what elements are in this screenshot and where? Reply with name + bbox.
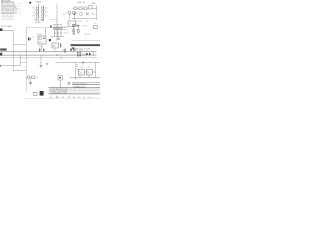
svg-text:TYP: TYP [86,21,89,23]
svg-text:Y1: Y1 [86,50,88,52]
wire [42,5,44,22]
wire [0,65,20,67]
diode D1 [35,19,38,21]
junction [54,32,55,33]
wire [26,26,67,28]
svg-text:C50: C50 [36,77,39,79]
resistor R31 [73,29,75,32]
wire [69,14,74,21]
wire [34,13,46,15]
wire [13,44,26,46]
resistor R13 [36,15,38,17]
wire tap [40,55,42,66]
wire [44,28,46,36]
wire [53,24,63,26]
resistor R42 [57,27,59,30]
svg-text:L101: L101 [78,2,82,4]
wire [84,71,95,73]
fuse F1 [79,7,82,10]
ground [40,66,43,68]
bus label [0,48,6,50]
arrow [86,53,88,55]
riser [93,52,95,55]
transistor Q1 [72,25,75,27]
wire [40,44,42,50]
resistor R50 [32,76,35,79]
svg-text:TR4 0S: TR4 0S [36,2,43,4]
connector CN5 [33,92,37,95]
wire [54,48,56,52]
wire [50,36,64,38]
relay K2 contacts [79,72,83,74]
wire [34,9,46,11]
wire net H [56,61,101,63]
junction [60,57,61,58]
node D1 [39,49,41,52]
connector stub P2 [0,53,2,56]
IC U2 [38,36,46,44]
resistor R41 [54,27,56,30]
junction [82,62,83,63]
diode D5 [60,43,62,47]
switch dot [59,77,61,79]
svg-text:XT 16MHz: XT 16MHz [77,50,84,52]
svg-text:R41 1k: R41 1k [63,27,68,29]
connector label [49,39,51,41]
wire [38,3,40,22]
lamp LP1 [68,82,71,85]
svg-text:10k: 10k [45,7,48,9]
diode D3 [77,25,79,27]
svg-text:IC3: IC3 [69,23,72,25]
wire [72,40,100,42]
rule [72,81,100,83]
logo block [40,91,44,96]
sheet edge [24,98,100,100]
resistor R43 [60,27,62,30]
IC U3 [68,21,75,26]
capacitor C31 [73,33,75,34]
wire [72,18,97,20]
wire [95,62,97,78]
wire [14,9,17,12]
wire [81,53,88,55]
inductor L1 [74,7,77,10]
relay K2 [78,69,84,75]
wire [14,3,17,9]
arrow [89,53,91,55]
wire [96,5,98,19]
svg-text:4k7: 4k7 [45,15,47,17]
relay K3 contacts [87,72,91,74]
crystal Y2 [77,53,81,56]
svg-text:R1: R1 [33,7,35,9]
svg-text:J6: J6 [63,50,65,52]
svg-text:C45 10u: C45 10u [63,33,68,35]
node A [2,14,15,16]
junction [56,55,57,56]
rule light [49,89,101,91]
wire bus1 [0,51,97,53]
wire [73,27,75,35]
svg-text:R42 1k: R42 1k [63,30,68,32]
wire [12,31,14,71]
resistor R12 [41,7,43,9]
svg-text:R3: R3 [33,15,35,17]
revision mark [72,47,75,49]
pin stub [17,4,20,14]
revision bar texture [72,44,100,46]
svg-text:X2: X2 [76,12,78,14]
polarized cap C41 [73,49,75,51]
junction [60,32,61,33]
rule [49,93,101,95]
node D2 [43,49,45,52]
diode D2 [41,19,44,21]
wire rails [55,24,61,36]
wire [14,7,17,11]
wire [2,30,13,32]
capacitor C47 [64,51,66,52]
node C [2,17,13,19]
relay K1 [88,6,92,9]
wire [70,77,100,79]
resistor R32 [77,30,79,33]
wire [14,12,17,15]
svg-text:D31 R32: D31 R32 [82,26,88,28]
resistor R22 [73,12,76,14]
svg-text:R21: R21 [63,14,66,16]
wire [13,70,26,72]
connector P1 [0,28,2,31]
label T1 [29,2,31,4]
svg-text:R34 C35: R34 C35 [84,34,90,36]
wire bus2 [0,54,97,56]
wire [2,19,14,21]
capacitor C46 [64,49,66,51]
wire [80,75,89,78]
wire [29,79,31,83]
capacitor C22 [80,12,83,15]
rule light [49,91,101,93]
varistor RV1 [73,12,75,15]
capacitor C12 [41,11,43,13]
ground [29,83,32,85]
revision bar [71,44,101,46]
wire [14,12,17,13]
resistor R14 [41,15,43,17]
capacitor C23 [87,12,88,15]
wire [20,61,26,63]
ground [46,63,48,65]
terminal TB1 [73,25,79,27]
IC U4 [52,43,58,48]
wire [14,4,17,9]
quote mark [28,38,30,41]
relay K3 [86,69,92,75]
capacitor C21 [84,7,87,10]
wire [73,7,97,9]
rule [72,84,100,86]
wire [82,62,84,65]
node B [2,16,15,18]
wire [14,6,17,10]
capacitor C50 [28,76,30,78]
IC U5 [93,26,97,29]
svg-text:IC: IC [33,37,34,39]
resistor R11 [36,7,38,9]
capacitor C45 [57,38,60,39]
wire [26,76,31,78]
wire [59,80,61,88]
svg-text:F1: F1 [83,2,85,4]
wire tap [19,55,21,66]
wire [14,10,17,12]
pin tick row [50,88,100,90]
switch S2 [58,76,63,80]
node dot [43,38,44,39]
sub-block [39,37,42,40]
connector J1 [1,1,14,14]
svg-text:B+: B+ [88,67,90,69]
wire net V1 [56,3,58,40]
wire [25,27,27,92]
polarized cap C40 [70,49,72,51]
svg-text:104: 104 [45,11,48,13]
label tag [50,26,52,28]
svg-text:K2 RY: K2 RY [80,67,84,69]
svg-text:X1 20p: X1 20p [38,46,43,48]
junction [57,32,58,33]
svg-text:C1: C1 [33,11,35,13]
capacitor C11 [36,11,38,13]
wire [50,18,57,20]
rule [49,87,101,89]
wire [77,27,79,35]
end tick [0,65,2,67]
resistor R21 [68,12,71,14]
wire ladder [76,62,78,80]
svg-text:U2 74HC: U2 74HC [37,34,43,36]
title block [49,82,101,94]
svg-text:SW1: SW1 [92,3,96,5]
wire bus3 [0,57,97,59]
